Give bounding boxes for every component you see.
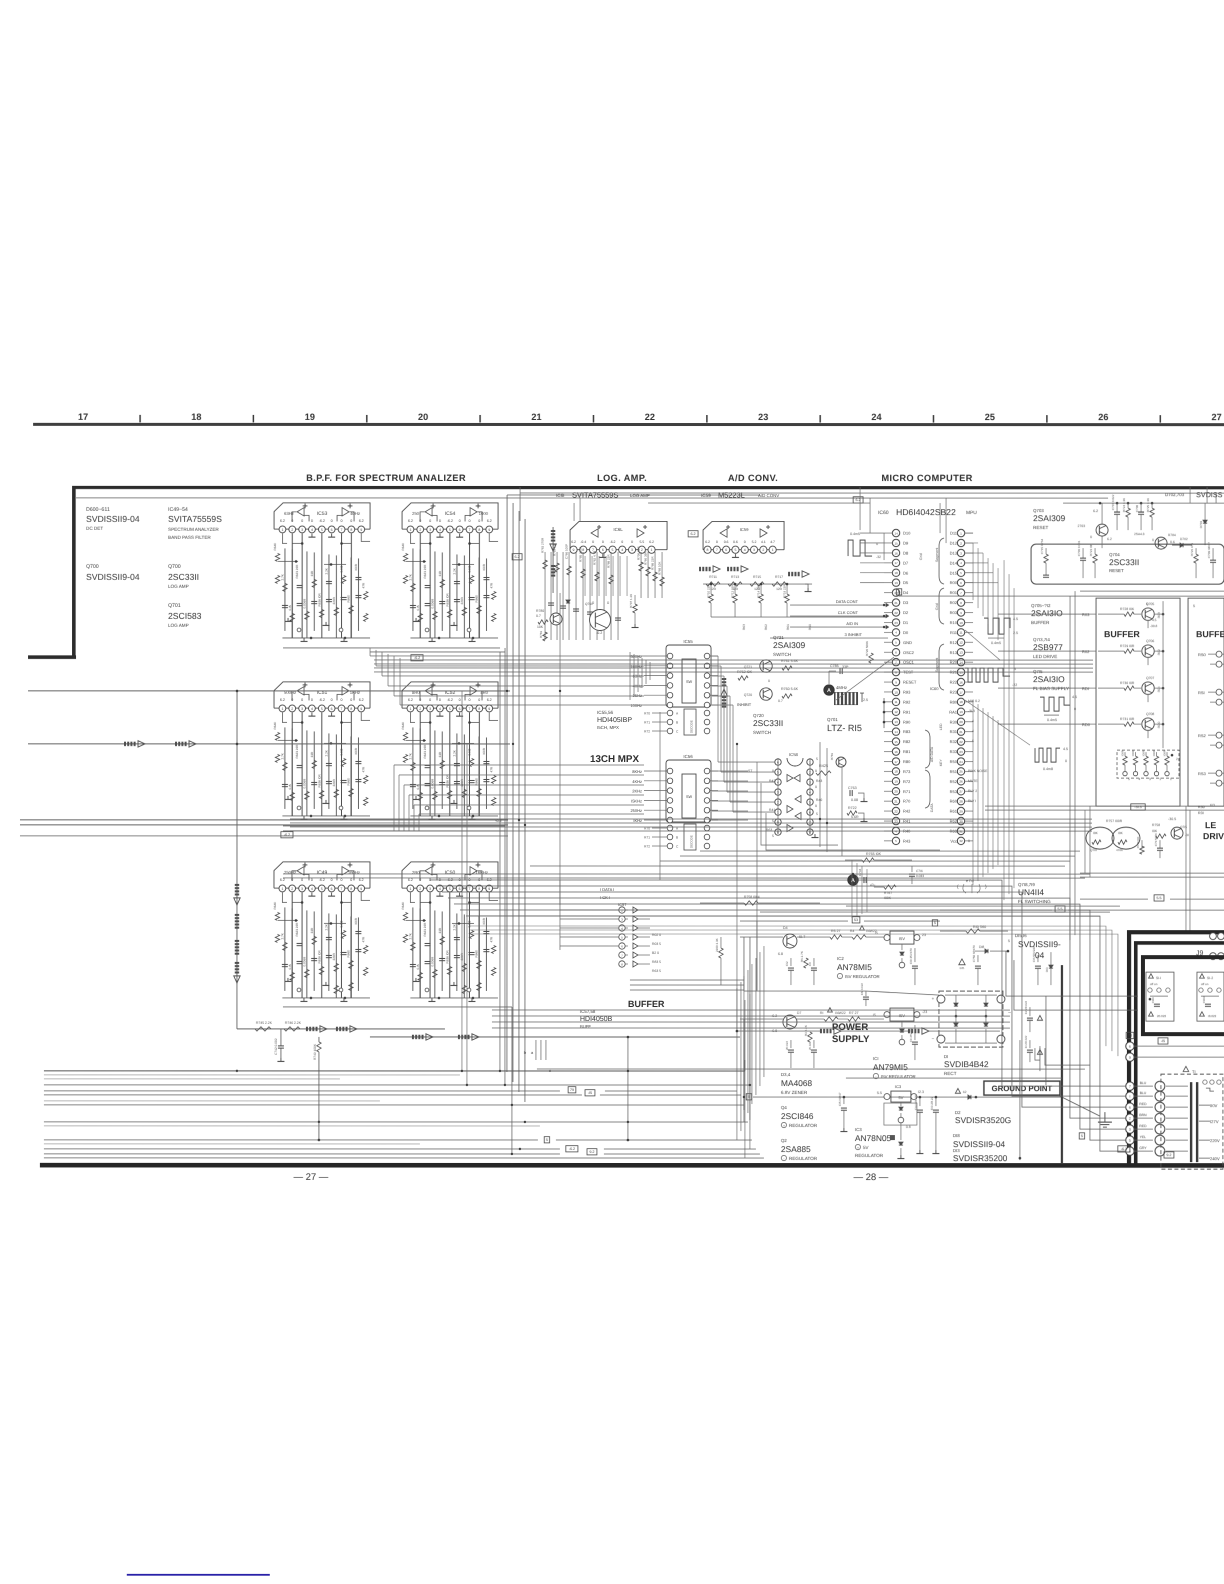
svg-text:0: 0 <box>459 519 461 523</box>
svg-text:6: 6 <box>331 887 333 891</box>
svg-text:A: A <box>851 878 855 884</box>
GROUND POINT label box <box>984 1081 1060 1095</box>
svg-text:R623 22R: R623 22R <box>423 744 427 759</box>
svg-text:47R: 47R <box>489 936 493 942</box>
page ruler line <box>33 423 1224 426</box>
svg-text:R3 2.2K: R3 2.2K <box>804 1025 808 1036</box>
svg-text:R63: R63 <box>742 624 746 630</box>
svg-text:8: 8 <box>350 707 352 711</box>
svg-text:MA4068: MA4068 <box>781 1078 813 1088</box>
svg-text:18: 18 <box>894 571 898 575</box>
svg-text:4KHz: 4KHz <box>632 779 642 784</box>
IC54 filter RC network <box>419 533 421 638</box>
svg-text:47R: 47R <box>489 582 493 588</box>
svg-text:9: 9 <box>488 528 490 532</box>
box 5.5 right <box>1154 895 1164 901</box>
svg-text:4: 4 <box>311 528 313 532</box>
svg-text:21: 21 <box>894 800 898 804</box>
arrows mid bottom <box>820 1029 822 1033</box>
wire bundle at IC58 right going down <box>851 860 853 918</box>
svg-text:R72: R72 <box>644 730 650 734</box>
svg-text:R636 I0R: R636 I0R <box>317 950 321 964</box>
svg-text:2SCI583: 2SCI583 <box>168 611 202 621</box>
svg-text:4: 4 <box>311 707 313 711</box>
voltage box 6.2 right top <box>853 497 863 503</box>
svg-text:R02: R02 <box>1157 649 1161 655</box>
svg-text:I00R: I00R <box>354 563 358 570</box>
svg-text:R789 10K: R789 10K <box>658 562 662 575</box>
svg-text:21: 21 <box>531 412 541 422</box>
svg-text:6.2: 6.2 <box>408 519 413 523</box>
wire Q7 to IC1 <box>797 1018 824 1020</box>
svg-text:17: 17 <box>894 760 898 764</box>
svg-text:5.5: 5.5 <box>640 540 645 544</box>
svg-text:R82: R82 <box>903 739 911 744</box>
svg-text:0: 0 <box>301 519 303 523</box>
svg-text:R10: R10 <box>950 620 958 625</box>
svg-text:32: 32 <box>959 839 963 843</box>
svg-text:0: 0 <box>478 698 480 702</box>
svg-text:4.1: 4.1 <box>761 540 766 544</box>
svg-text:ICI: ICI <box>873 1056 879 1061</box>
svg-text:E2 2R.022: E2 2R.022 <box>1024 1000 1028 1014</box>
svg-text:R782 4.7R: R782 4.7R <box>593 550 597 565</box>
IC58 right pin column <box>807 759 813 765</box>
svg-text:KEY: KEY <box>939 759 943 767</box>
IC51 ground pins <box>311 713 313 717</box>
svg-text:21: 21 <box>894 601 898 605</box>
buffer transistors Q705-Q708 <box>1142 608 1154 620</box>
connector pins 6 and 9 <box>1126 1042 1134 1050</box>
svg-text:1000: 1000 <box>479 511 489 516</box>
svg-text:R40: R40 <box>816 798 822 802</box>
bottom bus line 2 <box>44 1084 750 1086</box>
svg-text:I0K: I0K <box>1093 831 1099 835</box>
svg-text:0.I5: 0.I5 <box>416 605 420 610</box>
svg-text:6.2: 6.2 <box>705 540 710 544</box>
bus hatch segment 2 <box>235 940 239 942</box>
svg-text:476K: 476K <box>1116 848 1123 852</box>
top area wires above MPU <box>573 503 575 521</box>
svg-text:0.0I2: 0.0I2 <box>339 748 343 755</box>
IC60 right pin column <box>957 529 964 536</box>
svg-text:0: 0 <box>592 540 594 544</box>
svg-text:I5KHz: I5KHz <box>631 798 642 803</box>
svg-text:CI6 50V220: CI6 50V220 <box>1032 946 1036 962</box>
svg-text:2200 3.3K: 2200 3.3K <box>715 938 719 952</box>
bottom bus line 5 <box>44 1121 748 1123</box>
MPU to buffer wires <box>998 613 1090 615</box>
transformer T1 dashed box <box>1161 1074 1223 1169</box>
svg-text:7: 7 <box>469 707 471 711</box>
svg-text:D15: D15 <box>950 570 958 575</box>
svg-text:-6.2: -6.2 <box>1121 1147 1127 1151</box>
svg-text:13CH MPX: 13CH MPX <box>590 754 639 765</box>
svg-text:+: + <box>783 1124 785 1128</box>
svg-text:R636 I0R: R636 I0R <box>445 593 449 607</box>
svg-text:0: 0 <box>469 519 471 523</box>
svg-text:R660: R660 <box>475 950 479 958</box>
svg-text:R636 I0R: R636 I0R <box>445 950 449 964</box>
svg-text:3: 3 <box>429 887 431 891</box>
svg-text:4: 4 <box>439 887 441 891</box>
svg-text:D13: D13 <box>950 551 958 556</box>
svg-text:D702: D702 <box>1180 537 1188 541</box>
svg-text:23: 23 <box>894 621 898 625</box>
svg-text:23: 23 <box>959 750 963 754</box>
svg-text:2SAI309: 2SAI309 <box>773 640 805 650</box>
svg-text:RS0: RS0 <box>1198 652 1207 657</box>
svg-text:R713: R713 <box>731 575 739 579</box>
svg-text:Q721: Q721 <box>744 665 752 669</box>
svg-text:13: 13 <box>894 720 898 724</box>
svg-text:R00: R00 <box>950 580 958 585</box>
svg-text:R760 5.6K: R760 5.6K <box>781 687 799 691</box>
wire left D <box>20 835 508 837</box>
svg-text:R759 I00: R759 I00 <box>1136 836 1140 848</box>
svg-text:4: 4 <box>621 548 623 552</box>
svg-text:IC57: IC57 <box>618 902 627 907</box>
svg-text:8: 8 <box>582 548 584 552</box>
box 73 small right <box>1126 1032 1134 1038</box>
svg-text:0: 0 <box>301 878 303 882</box>
svg-text:C707 0.022: C707 0.022 <box>1111 494 1115 510</box>
svg-text:−: − <box>932 1036 935 1041</box>
svg-text:1: 1 <box>1170 777 1172 781</box>
reset supply rail <box>1063 502 1224 504</box>
svg-text:R11: R11 <box>950 630 958 635</box>
svg-text:R03: R03 <box>950 610 958 615</box>
svg-text:R640: R640 <box>401 722 405 730</box>
svg-text:2: 2 <box>291 887 293 891</box>
svg-text:2SAI3IO: 2SAI3IO <box>1031 608 1063 618</box>
svg-text:R660: R660 <box>347 950 351 958</box>
IC55 output pins <box>704 653 710 659</box>
op-amp 2 of IC53 <box>342 508 349 516</box>
svg-text:47R: 47R <box>361 582 365 588</box>
svg-text:15: 15 <box>894 541 898 545</box>
svg-text:5: 5 <box>449 887 451 891</box>
capacitor C5 below Q7 <box>790 1040 792 1048</box>
wire mesh verticals left of BPF <box>461 691 463 1071</box>
svg-text:13: 13 <box>959 651 963 655</box>
svg-text:SVDISS: SVDISS <box>1196 490 1223 499</box>
resistor R745 2.2K <box>255 1027 271 1031</box>
svg-text:EI9 0.022: EI9 0.022 <box>860 983 864 995</box>
svg-text:2R.022: 2R.022 <box>785 1041 789 1050</box>
svg-text:10: 10 <box>894 690 898 694</box>
svg-text:R706 39R: R706 39R <box>637 546 641 560</box>
svg-text:A/D CONV: A/D CONV <box>758 493 779 498</box>
IC61 RC network <box>544 552 546 640</box>
svg-text:2: 2 <box>1129 1117 1131 1121</box>
transistor Q715 <box>1171 827 1183 839</box>
svg-text:0.0068: 0.0068 <box>431 779 435 789</box>
svg-text:-I5: -I5 <box>1161 1039 1165 1043</box>
resistor R1 1/4W22 <box>824 1017 838 1021</box>
svg-text:C734: C734 <box>858 869 862 877</box>
flow arrow right of IC59 <box>788 572 790 576</box>
IC59 pins 8-1 <box>704 546 711 553</box>
IC61 ground stub <box>602 554 604 558</box>
IC54 ground pins <box>439 534 441 538</box>
svg-text:0.0068: 0.0068 <box>431 599 435 609</box>
wires down from buffer area <box>1084 810 1086 873</box>
svg-text:4.5: 4.5 <box>1152 618 1157 622</box>
svg-text:SW: SW <box>686 680 693 684</box>
A/D ladder resistors R711 R713 R715 R717 <box>703 583 812 585</box>
blue underline mark <box>127 1574 270 1576</box>
svg-text:SVITA75559S: SVITA75559S <box>168 514 222 524</box>
FL bias oval pair Q718 <box>1112 827 1140 849</box>
schematic bottom border <box>40 1163 1224 1168</box>
resistor R723 10K <box>1094 548 1096 554</box>
svg-text:0: 0 <box>429 698 431 702</box>
svg-text:LTZ- RI5: LTZ- RI5 <box>827 723 862 733</box>
svg-text:BUFFER: BUFFER <box>1031 620 1050 625</box>
svg-text:-0.4: -0.4 <box>580 540 586 544</box>
svg-text:R51: R51 <box>950 769 958 774</box>
filter rail row1 <box>283 647 500 649</box>
wire mesh top left of log amp <box>75 498 77 658</box>
svg-text:EI3 2R.22: EI3 2R.22 <box>930 1096 934 1110</box>
svg-text:SVDISSII9-: SVDISSII9- <box>1018 939 1061 949</box>
svg-text:R623 22R: R623 22R <box>295 564 299 579</box>
svg-text:6: 6 <box>1129 1045 1131 1049</box>
svg-text:I00R: I00R <box>1152 750 1156 756</box>
svg-text:R788 22R: R788 22R <box>607 554 611 568</box>
svg-text:-6.2: -6.2 <box>319 519 325 523</box>
svg-text:0.0I2: 0.0I2 <box>467 748 471 755</box>
svg-text:I00R: I00R <box>1142 750 1146 756</box>
svg-text:D7: D7 <box>903 560 909 565</box>
svg-text:D1: D1 <box>903 620 909 625</box>
svg-text:R640: R640 <box>273 722 277 730</box>
svg-text:R30: R30 <box>950 719 958 724</box>
bus down-arrow 2 <box>235 962 239 964</box>
svg-text:SVDISR3520G: SVDISR3520G <box>955 1115 1011 1125</box>
IC61 pins 9-1 <box>570 546 577 553</box>
svg-text:2703: 2703 <box>1078 524 1086 528</box>
svg-text:0: 0 <box>291 519 293 523</box>
svg-text:b: b <box>524 1050 527 1055</box>
svg-text:R61: R61 <box>950 809 958 814</box>
vertical wires bpf to bus <box>236 1029 238 1071</box>
IC56 output pins <box>704 768 710 774</box>
capacitor E2 right of bridge <box>1029 1007 1031 1016</box>
junction dots mid mesh <box>506 690 508 692</box>
svg-text:Vcc: Vcc <box>950 838 957 843</box>
svg-text:0: 0 <box>331 698 333 702</box>
svg-text:R23: R23 <box>950 690 958 695</box>
svg-text:0.0068: 0.0068 <box>303 599 307 609</box>
svg-text:220R: 220R <box>332 596 336 604</box>
svg-text:Segment: Segment <box>935 548 939 562</box>
svg-text:17: 17 <box>78 412 88 422</box>
svg-text:R02: R02 <box>950 600 958 605</box>
svg-text:62: 62 <box>963 1090 967 1094</box>
svg-text:2.7K: 2.7K <box>409 932 413 939</box>
svg-text:BLU: BLU <box>1140 1091 1147 1095</box>
svg-text:DATA CONT: DATA CONT <box>836 599 859 604</box>
svg-text:0.6: 0.6 <box>724 540 729 544</box>
svg-text:6.2: 6.2 <box>359 698 364 702</box>
svg-text:C7I6: C7I6 <box>916 869 923 873</box>
bus box -15 <box>585 1090 595 1096</box>
svg-text:LOG AMP: LOG AMP <box>630 493 650 498</box>
IC54 pins 1-9 <box>407 526 414 533</box>
svg-text:R03: R03 <box>1082 612 1090 617</box>
bridge rectifier D1 box <box>939 991 1003 1047</box>
svg-text:R757 I00R: R757 I00R <box>1106 819 1123 823</box>
svg-text:9: 9 <box>360 707 362 711</box>
signal flow arrow 2 <box>175 742 177 746</box>
svg-text:0: 0 <box>772 769 774 773</box>
svg-text:0: 0 <box>341 519 343 523</box>
power left verticals <box>743 1019 745 1110</box>
svg-text:2SC33II: 2SC33II <box>1109 557 1139 567</box>
svg-text:R660: R660 <box>475 595 479 603</box>
svg-text:0: 0 <box>301 698 303 702</box>
svg-text:29: 29 <box>959 809 963 813</box>
svg-text:7: 7 <box>341 887 343 891</box>
diode 2790 <box>566 600 570 603</box>
svg-text:20: 20 <box>959 720 963 724</box>
IC55 input wire bundle <box>629 652 631 700</box>
voltage box 6.2 mid <box>688 531 698 537</box>
IC51 filter RC network <box>291 712 293 816</box>
svg-text:RDI: RDI <box>1157 687 1161 693</box>
svg-text:R724 3.3K: R724 3.3K <box>1122 498 1126 512</box>
svg-text:6.2: 6.2 <box>487 698 492 702</box>
svg-text:22: 22 <box>959 740 963 744</box>
svg-text:2.2K: 2.2K <box>325 567 329 574</box>
svg-text:0: 0 <box>350 519 352 523</box>
svg-text:2SB977: 2SB977 <box>1033 642 1063 652</box>
wire box 5 mid <box>932 920 937 926</box>
svg-text:10: 10 <box>959 621 963 625</box>
capacitor E19 0.022 <box>865 991 867 996</box>
svg-text:12: 12 <box>894 710 898 714</box>
svg-text:Q700: Q700 <box>168 564 181 570</box>
svg-text:0: 0 <box>631 540 633 544</box>
svg-text:D2: D2 <box>903 610 909 615</box>
rail voltage box -6.2 row1 <box>411 655 423 661</box>
svg-text:5: 5 <box>612 548 614 552</box>
transistor Q4 power <box>783 934 797 948</box>
op-amp 2 of IC59 <box>760 529 767 537</box>
svg-text:IC6L: IC6L <box>613 527 623 532</box>
svg-text:IC55,56: IC55,56 <box>597 710 614 715</box>
svg-text:DI8: DI8 <box>979 945 984 949</box>
transistor Q721 <box>760 660 772 672</box>
svg-text:2.7K: 2.7K <box>281 752 285 759</box>
svg-text:0: 0 <box>439 698 441 702</box>
svg-text:47R: 47R <box>361 766 365 772</box>
svg-text:MIC 0.2: MIC 0.2 <box>968 699 980 703</box>
svg-text:21: 21 <box>959 730 963 734</box>
svg-text:B.P.F. FOR SPECTRUM ANALIZER: B.P.F. FOR SPECTRUM ANALIZER <box>306 473 466 483</box>
svg-text:9.2: 9.2 <box>589 1150 594 1154</box>
svg-text:4: 4 <box>439 707 441 711</box>
svg-text:2.5: 2.5 <box>863 698 868 702</box>
svg-text:-32: -32 <box>876 555 881 559</box>
svg-text:0: 0 <box>419 519 421 523</box>
svg-text:): ) <box>985 884 987 890</box>
resistor R767 100K <box>874 886 884 888</box>
crystal caps <box>860 692 864 694</box>
svg-text:DC DET: DC DET <box>86 526 103 531</box>
transformer top pins <box>1203 1080 1207 1084</box>
svg-text:R03: R03 <box>1157 612 1161 618</box>
svg-text:R640: R640 <box>273 902 277 910</box>
flow arrow 6 <box>458 1035 460 1039</box>
wire box 5.5 mid <box>1055 906 1065 912</box>
svg-text:IC2: IC2 <box>837 956 844 961</box>
svg-text:220V: 220V <box>1210 1138 1220 1143</box>
svg-text:4: 4 <box>1139 777 1141 781</box>
connector outer thick box left <box>1127 930 1131 1165</box>
svg-text:R784 1R: R784 1R <box>553 543 557 556</box>
diag line bundle to J9 <box>990 886 1127 941</box>
svg-text:R712 22R: R712 22R <box>731 584 735 598</box>
svg-text:Q700: Q700 <box>86 564 99 570</box>
wire sum to buffer <box>370 1036 740 1038</box>
svg-text:R12: R12 <box>950 640 958 645</box>
svg-text:A: A <box>676 712 679 716</box>
svg-text:C90I: C90I <box>1151 997 1155 1003</box>
svg-text:R31: R31 <box>950 729 958 734</box>
svg-text:C709 I9R47: C709 I9R47 <box>1207 542 1211 558</box>
svg-text:33R: 33R <box>310 570 314 576</box>
svg-text:5: 5 <box>449 707 451 711</box>
svg-text:220R: 220R <box>332 952 336 960</box>
capacitor C709 <box>1212 548 1214 560</box>
svg-text:INHIBIT: INHIBIT <box>737 702 752 707</box>
IC60 left pin column <box>892 529 899 536</box>
op-amp filter IC IC50 box <box>402 862 498 888</box>
resistor R3 2.2K <box>808 1032 812 1042</box>
svg-text:3: 3 <box>1129 1128 1131 1132</box>
svg-text:6.2: 6.2 <box>1093 509 1098 513</box>
svg-text:6: 6 <box>459 707 461 711</box>
svg-text:19: 19 <box>959 710 963 714</box>
svg-text:11: 11 <box>894 700 897 704</box>
vertical wires right of IC57 <box>535 1040 537 1060</box>
svg-text:0.7: 0.7 <box>536 614 541 618</box>
svg-text:RS3: RS3 <box>1198 771 1207 776</box>
svg-text:R725 3.3K: R725 3.3K <box>1146 498 1150 512</box>
capacitor E1 right of bridge <box>1029 1040 1031 1048</box>
svg-text:C763: C763 <box>848 786 857 790</box>
op-amp 1 of IC49 <box>297 867 304 875</box>
svg-text:MICRO COMPUTER: MICRO COMPUTER <box>881 473 972 483</box>
svg-text:BUFFE: BUFFE <box>1196 629 1224 639</box>
right edge pins second buffer stubs <box>1222 653 1224 655</box>
IC52 pins 1-9 <box>407 705 414 712</box>
svg-text:R42: R42 <box>769 779 775 783</box>
svg-text:BLU: BLU <box>1140 1081 1147 1085</box>
junction dots on input wires <box>236 743 239 746</box>
transistor Q720 <box>760 688 772 700</box>
wires IC56 outputs <box>712 770 748 772</box>
svg-text:5: 5 <box>1128 777 1130 781</box>
svg-text:25: 25 <box>985 412 995 422</box>
svg-text:2.7K: 2.7K <box>409 752 413 759</box>
svg-text:R60: R60 <box>950 799 958 804</box>
capacitor C15 16R47 <box>843 1097 845 1104</box>
svg-text:0: 0 <box>291 878 293 882</box>
